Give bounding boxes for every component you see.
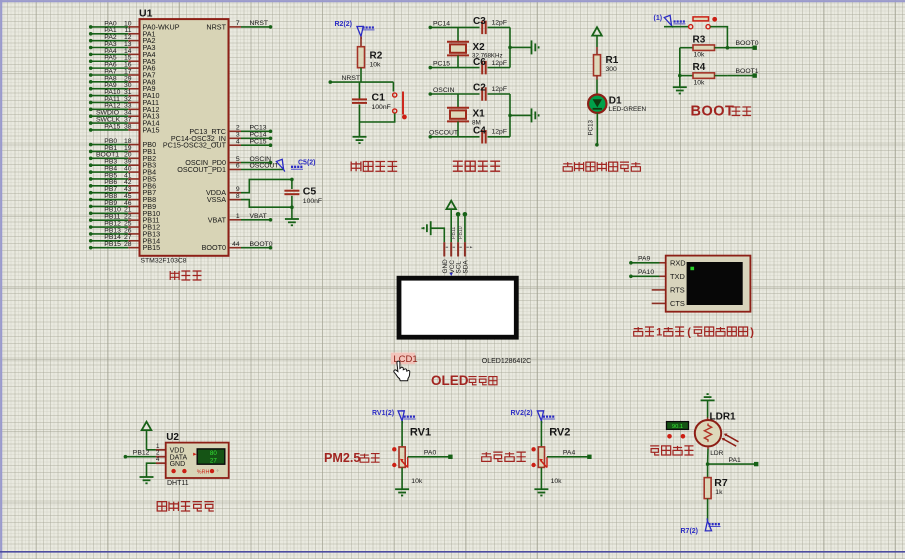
svg-text:(1): (1) (654, 15, 663, 22)
wire PB1 to U1 pin 19 (89, 145, 156, 156)
LDR sensor LDR1 (695, 411, 739, 464)
terminal label RV1(2) (372, 408, 416, 423)
wire OSCIN node (429, 87, 480, 96)
svg-text:PA10: PA10 (638, 269, 654, 276)
svg-text:100nF: 100nF (372, 104, 391, 111)
svg-text:PC15-OSC32_OUT: PC15-OSC32_OUT (163, 141, 227, 150)
wire RV1 bottom to ground (401, 468, 403, 490)
svg-text:27: 27 (210, 458, 217, 465)
svg-text:6: 6 (236, 163, 240, 170)
wire BOOT1 to terminal (727, 68, 758, 78)
svg-text:RV1: RV1 (410, 426, 431, 438)
label BOOT电路 (691, 104, 752, 120)
ground below C5 (285, 218, 299, 220)
svg-text:PB15: PB15 (143, 243, 161, 252)
svg-text:10k: 10k (694, 52, 706, 59)
LED D1 LED-GREEN (588, 95, 646, 114)
wire PB10 to U1 pin 21 (89, 207, 160, 218)
wire left rail BOOT divider (679, 48, 681, 87)
wire PB5 to U1 pin 41 (89, 172, 156, 183)
wire U1 VSSA pin 8 to C5 bottom node (207, 193, 292, 207)
label 温湿度模块 (157, 502, 214, 511)
capacitor C1 100nF (352, 82, 391, 137)
wire PA15 to U1 pin 38 (89, 123, 160, 134)
resistor R4 10k (678, 62, 727, 86)
svg-text:U1: U1 (139, 8, 153, 20)
svg-text:RXD: RXD (670, 259, 686, 268)
terminal label R7(2) (681, 518, 721, 535)
label 串口1窗口（模拟手机端） (634, 327, 755, 339)
svg-text:C2: C2 (473, 83, 486, 94)
svg-text:R2: R2 (370, 51, 383, 62)
svg-text:CTS: CTS (670, 299, 685, 308)
svg-text:R4: R4 (693, 62, 706, 73)
svg-text:C5: C5 (303, 186, 317, 198)
wire PB9 to U1 pin 46 (89, 200, 156, 211)
ground right of X2 (531, 40, 533, 54)
wire PC15 node (429, 61, 480, 70)
svg-text:LDR1: LDR1 (710, 411, 737, 422)
svg-text:BOOT0: BOOT0 (202, 243, 226, 252)
node NRST wire (329, 75, 394, 84)
svg-text:SDA: SDA (463, 260, 470, 274)
ground below U2 GND (140, 476, 154, 478)
wire U1 pin 7 NRST (206, 20, 272, 31)
wire PA2 to U1 pin 12 (89, 34, 156, 45)
svg-text:100nF: 100nF (303, 198, 322, 205)
svg-text:NRST: NRST (206, 22, 226, 31)
label 晶振电路 (453, 161, 500, 171)
svg-text:1: 1 (236, 213, 240, 220)
svg-text:U2: U2 (166, 432, 179, 443)
resistor R7 1k (704, 464, 728, 521)
wire PA6 to U1 pin 16 (89, 62, 156, 73)
label PM2.5 (324, 451, 380, 465)
svg-text:PM2.5: PM2.5 (324, 451, 360, 465)
terminal label R2(2) (335, 21, 375, 39)
power terminal above OLED VCC (446, 201, 456, 243)
wire BOOT0 to terminal (727, 40, 758, 50)
svg-text:28: 28 (124, 241, 132, 248)
wire PB15 to U1 pin 28 (89, 241, 160, 252)
wire U1 pin 4 PC15-OSC32_OUT (163, 138, 272, 149)
svg-text:PB11: PB11 (451, 227, 457, 239)
wire PA12 to U1 pin 33 (89, 103, 160, 114)
label 主芯片 (170, 271, 201, 280)
power terminal above U2 (142, 422, 156, 450)
terminal label (1) (654, 13, 686, 27)
wire PA0 to U1 pin 10 (89, 20, 180, 31)
svg-text:PB15: PB15 (104, 241, 121, 248)
wire PB6 to U1 pin 42 (89, 179, 156, 190)
wire PA4 to terminal (547, 450, 592, 459)
wire right rail upper crystal (508, 27, 531, 67)
resistor R2 10k (358, 37, 383, 83)
wire PC13 below D1 (588, 113, 599, 147)
wire SWDIO to U1 pin 34 (89, 110, 160, 121)
wire SWCLK to U1 pin 37 (89, 116, 160, 127)
capacitor C2 12pF (473, 83, 510, 101)
svg-text:): ) (750, 327, 754, 339)
wire U1 pin 6 OSCOUT_PD1 (177, 163, 283, 174)
selection label LCD1 (391, 353, 418, 365)
svg-text:GND: GND (170, 461, 186, 468)
svg-text:RV2: RV2 (549, 426, 570, 438)
svg-text:BOOT0: BOOT0 (736, 40, 759, 47)
svg-text:BOOT0: BOOT0 (250, 241, 273, 248)
svg-text:PA0: PA0 (424, 450, 437, 457)
svg-text:PA15: PA15 (104, 123, 120, 130)
crystal X2 32.768KHz (447, 27, 503, 67)
svg-text:OSCOUT_PD1: OSCOUT_PD1 (177, 165, 226, 174)
wire PA1 to U1 pin 11 (89, 27, 156, 38)
mouse hand cursor (394, 361, 410, 381)
wire PB0 to U1 pin 18 (89, 138, 156, 149)
svg-text:OLED12864I2C: OLED12864I2C (482, 358, 531, 365)
display LCD1 OLED12864I2C (399, 273, 531, 365)
wire U1 pin 5 OSCIN_PD0 (185, 156, 272, 167)
wire PA9 to U1 pin 30 (89, 82, 156, 93)
svg-text:7: 7 (236, 20, 240, 27)
label 声音 (482, 452, 526, 461)
svg-text:300: 300 (606, 66, 618, 73)
svg-text:10k: 10k (551, 478, 563, 485)
wire PA8 to U1 pin 29 (89, 75, 156, 86)
svg-text:X1: X1 (473, 108, 486, 119)
svg-text:PA1: PA1 (729, 457, 742, 464)
wire OSCOUT node (429, 130, 480, 139)
svg-text:12pF: 12pF (492, 60, 508, 67)
capacitor C5 100nF (284, 178, 322, 219)
svg-text:8: 8 (236, 193, 240, 200)
resistor R1 300 (594, 47, 619, 95)
wire PA0 to terminal (408, 450, 453, 459)
svg-text:PC13: PC13 (588, 119, 595, 135)
wire PB8 to U1 pin 45 (89, 193, 156, 204)
wire PB11 to U1 pin 22 (89, 214, 160, 225)
svg-text:12pF: 12pF (492, 129, 508, 136)
wire PA7 to U1 pin 17 (89, 68, 156, 79)
virtual terminal window (652, 256, 751, 312)
capacitor C3 12pF (473, 16, 510, 34)
capacitor C6 12pF (473, 57, 510, 74)
lux display 90.1 (667, 422, 689, 439)
potentiometer RV1 10k (392, 421, 431, 485)
ground BOOT divider (673, 86, 687, 88)
potentiometer RV2 10k (531, 421, 570, 485)
power terminal above R1 (592, 27, 602, 47)
svg-text:44: 44 (232, 241, 240, 248)
svg-text:PA15: PA15 (143, 125, 160, 134)
svg-text:12pF: 12pF (492, 86, 508, 93)
svg-text:C4: C4 (473, 125, 486, 136)
ground below RV2 (534, 488, 548, 490)
wire PA1 node (706, 457, 759, 467)
wire PC14 node (429, 20, 480, 29)
label OLED显示屏 (431, 373, 497, 388)
svg-text:PC15: PC15 (433, 61, 450, 68)
svg-text:OSCOUT: OSCOUT (250, 163, 279, 170)
wire PB13 to U1 pin 26 (89, 227, 160, 238)
wire PA3 to U1 pin 13 (89, 41, 156, 52)
svg-text:OSCOUT: OSCOUT (429, 130, 458, 137)
svg-text:OLED: OLED (431, 373, 469, 388)
svg-text:10k: 10k (411, 478, 423, 485)
DHT11 module U2 (156, 432, 229, 487)
ground right of X1 (531, 108, 533, 122)
svg-text:C1: C1 (372, 91, 386, 103)
svg-text:VBAT: VBAT (250, 213, 267, 220)
ground left of OLED GND (422, 221, 445, 242)
wire BOOT1 to U1 pin 20 (89, 152, 156, 163)
svg-text:1: 1 (656, 327, 662, 339)
OLED pins GND VCC SCL SDA (442, 242, 473, 273)
svg-text:OSCIN: OSCIN (433, 87, 455, 94)
svg-text:4: 4 (156, 456, 160, 463)
svg-text:PB12: PB12 (133, 449, 150, 456)
wire PB7 to U1 pin 43 (89, 186, 156, 197)
wire U1 pin 44 BOOT0 (202, 241, 273, 252)
svg-text:NRST: NRST (342, 75, 361, 82)
crystal X1 8M (447, 94, 485, 137)
svg-text:°: ° (217, 469, 219, 475)
ground below RV1 (395, 488, 409, 490)
svg-text:LED-GREEN: LED-GREEN (609, 106, 647, 113)
svg-text:VDD: VDD (170, 447, 185, 454)
wire PB3 to U1 pin 39 (89, 159, 156, 170)
svg-text:VBAT: VBAT (208, 215, 227, 224)
label 复位电路 (351, 162, 397, 172)
wire PB4 to U1 pin 40 (89, 165, 156, 176)
svg-text:(: ( (687, 327, 691, 339)
svg-text:NRST: NRST (250, 20, 269, 27)
wire PA4 to U1 pin 14 (89, 48, 156, 59)
svg-text:10k: 10k (370, 62, 382, 69)
svg-text:12pF: 12pF (492, 19, 508, 26)
svg-text:BOOT: BOOT (691, 104, 735, 120)
svg-text:90.1: 90.1 (672, 424, 683, 430)
wire RV2 bottom to ground (540, 468, 542, 490)
svg-text:C5(2): C5(2) (298, 160, 316, 167)
svg-text:R7: R7 (714, 477, 728, 489)
svg-text:R7(2): R7(2) (681, 528, 699, 535)
wire U1 pin 2 PC13_RTC (189, 125, 272, 136)
svg-text:RTS: RTS (670, 286, 685, 295)
ground above LDR1 (701, 394, 715, 420)
wire PA10 to U1 pin 31 (89, 89, 160, 100)
terminal label C5(2) (274, 157, 315, 171)
svg-text:%RH: %RH (197, 470, 210, 476)
svg-text:R3: R3 (693, 34, 706, 45)
svg-text:80: 80 (210, 450, 217, 457)
svg-text:RV2(2): RV2(2) (511, 410, 533, 417)
svg-text:C3: C3 (473, 16, 486, 27)
svg-text:38: 38 (124, 123, 132, 130)
wire U1 pin 3 PC14-OSC32_IN (171, 132, 272, 143)
svg-text:PB10: PB10 (458, 226, 464, 239)
svg-text:VSSA: VSSA (207, 195, 226, 204)
capacitor C4 12pF (473, 125, 510, 143)
wire PB14 to U1 pin 27 (89, 234, 160, 245)
terminal label RV2(2) (511, 408, 555, 423)
wire U1 pin 1 VBAT (208, 213, 273, 224)
wire PA11 to U1 pin 32 (89, 96, 159, 107)
push button reset (360, 82, 407, 122)
wire GND pin to ground (147, 463, 156, 477)
wire PA5 to U1 pin 15 (89, 55, 156, 66)
resistor R3 10k (680, 34, 729, 58)
svg-text:PC13: PC13 (250, 125, 267, 132)
svg-text:C6: C6 (473, 57, 486, 68)
svg-text:TXD: TXD (670, 272, 685, 281)
svg-text:BOOT1: BOOT1 (736, 68, 759, 75)
svg-text:DHT11: DHT11 (167, 480, 189, 487)
wire PA10 to TXD (629, 269, 666, 278)
label 光照调节 (650, 446, 693, 455)
label 程序运行指示灯 (563, 162, 640, 171)
wire SCL stub PB10 (451, 212, 460, 242)
push button BOOT (664, 17, 727, 48)
chip U1 STM32F103C8 (139, 8, 229, 265)
svg-text:10k: 10k (694, 79, 706, 86)
ground below C1 (353, 136, 367, 138)
svg-text:1k: 1k (715, 489, 723, 496)
wire right rail lower crystal (508, 94, 531, 137)
wire PB12 to DATA (124, 449, 156, 458)
svg-text:PC15: PC15 (250, 138, 267, 145)
svg-text:4: 4 (236, 138, 240, 145)
svg-text:RV1(2): RV1(2) (372, 410, 394, 417)
svg-text:PC14: PC14 (433, 20, 450, 27)
wire SDA stub PB11 (458, 212, 467, 242)
svg-text:PA9: PA9 (638, 255, 651, 262)
wire U1 VDDA pin 9 to C5 top node (206, 179, 292, 197)
svg-text:2: 2 (236, 125, 240, 132)
svg-text:D1: D1 (609, 96, 622, 107)
svg-text:PA4: PA4 (563, 450, 576, 457)
wire PA9 to RXD (629, 255, 666, 264)
svg-text:LDR: LDR (710, 450, 723, 457)
svg-text:STM32F103C8: STM32F103C8 (141, 258, 187, 265)
wire PB12 to U1 pin 25 (89, 220, 160, 231)
svg-text:R2(2): R2(2) (335, 21, 353, 28)
svg-text:R1: R1 (606, 55, 619, 66)
